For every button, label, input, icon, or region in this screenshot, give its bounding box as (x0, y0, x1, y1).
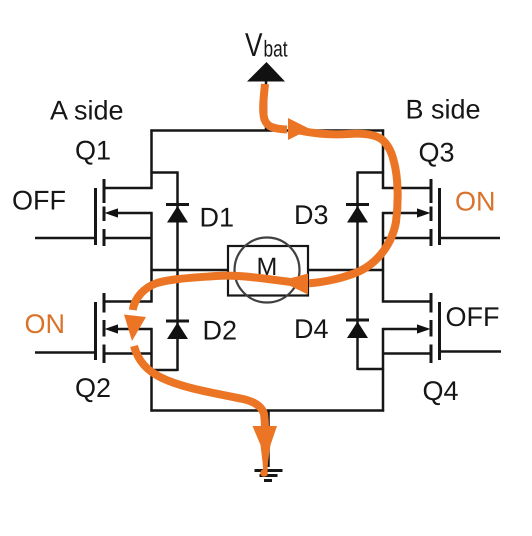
wire ground stub (267, 411, 270, 468)
label Vbat (245, 26, 288, 63)
label D1 (200, 203, 235, 233)
label OFF (Q1 state) (12, 186, 66, 216)
label Q2 (75, 373, 111, 403)
svg-text:V: V (245, 26, 263, 63)
ground (255, 471, 283, 481)
wire left rail middle (150, 212, 153, 303)
svg-text:D2: D2 (203, 316, 238, 346)
transistor Q2 (35, 293, 153, 363)
wire left rail upper (150, 129, 153, 189)
svg-text:A side: A side (50, 96, 124, 126)
svg-text:ON: ON (25, 309, 66, 339)
svg-text:OFF: OFF (446, 302, 500, 332)
wire D4 jog (358, 368, 385, 371)
diode D4 (346, 269, 369, 370)
label D2 (203, 316, 238, 346)
svg-text:OFF: OFF (12, 186, 66, 216)
wire Vbat stub (265, 81, 268, 131)
transistor Q1 (35, 179, 153, 246)
svg-text:D3: D3 (294, 200, 329, 230)
label ON (Q3 state) (455, 187, 496, 217)
power symbol Vbat arrow (247, 62, 285, 82)
label B side (406, 95, 481, 125)
wire right rail middle (382, 212, 385, 303)
svg-text:Q1: Q1 (75, 136, 111, 166)
label OFF (Q4 state) (446, 302, 500, 332)
motor M (228, 238, 308, 303)
wire D1 branch (150, 171, 177, 174)
svg-text:Q2: Q2 (75, 373, 111, 403)
label A side (50, 96, 124, 126)
wire top rail (150, 129, 384, 132)
svg-text:D1: D1 (200, 203, 235, 233)
wire right rail lower (382, 328, 385, 412)
wire right rail upper (382, 129, 385, 189)
current flow arrow from Vbat (orange) (263, 84, 310, 140)
label D3 (294, 200, 329, 230)
label Q1 (75, 136, 111, 166)
wire mid rail left (150, 269, 229, 272)
wire D2 jog (150, 369, 177, 372)
svg-text:B side: B side (406, 95, 481, 125)
svg-text:Q3: Q3 (419, 138, 455, 168)
svg-text:Q4: Q4 (423, 376, 459, 406)
current flow arrow down B side into motor (orange) (280, 131, 398, 295)
svg-text:D4: D4 (294, 314, 329, 344)
svg-text:bat: bat (264, 36, 288, 62)
diode D1 (166, 171, 189, 270)
current flow arrow out of motor into Q2 (orange) (124, 276, 300, 341)
diode D3 (346, 171, 369, 270)
wire left rail lower (150, 328, 153, 412)
label D4 (294, 314, 329, 344)
wire bottom rail (150, 409, 384, 412)
svg-text:ON: ON (455, 187, 496, 217)
wire mid rail right (307, 269, 384, 272)
wire D3 branch (358, 171, 385, 174)
label ON (Q2 state) (25, 309, 66, 339)
label Q4 (423, 376, 459, 406)
current flow arrow through Q2 to ground (orange) (134, 346, 277, 477)
diode D2 (166, 269, 189, 371)
transistor Q4 (382, 293, 501, 363)
transistor Q3 (382, 179, 500, 246)
label Q3 (419, 138, 455, 168)
